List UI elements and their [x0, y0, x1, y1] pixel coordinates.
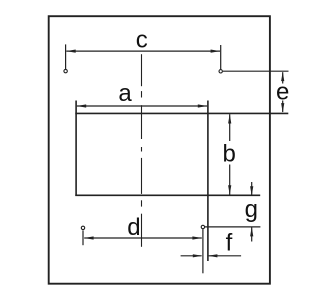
centerline — [141, 54, 143, 247]
arrowhead a right — [198, 104, 208, 107]
arrowhead b up — [228, 114, 231, 124]
arrowhead a left — [77, 104, 87, 107]
arrowhead f right-pointing (left of pair) — [193, 254, 203, 257]
svg-text:c: c — [136, 27, 148, 54]
mounting hole bottom-left — [81, 226, 84, 229]
arrowhead e down — [281, 103, 284, 113]
arrowhead b down — [228, 185, 231, 195]
arrowhead f left-pointing (right of pair) — [208, 254, 218, 257]
dimension c line — [66, 50, 220, 52]
cutout left edge — [75, 101, 77, 196]
arrowhead g down (above) — [250, 186, 253, 196]
extension line d left (below bottom-left hole) — [82, 230, 84, 245]
cutout bottom edge — [75, 194, 260, 196]
mounting hole top-right — [219, 70, 222, 73]
svg-text:e: e — [276, 78, 289, 105]
dimension f line — [181, 255, 202, 257]
panel outline — [49, 16, 270, 284]
extension line c left — [65, 44, 67, 69]
dimension a line — [77, 105, 207, 107]
arrowhead e up — [281, 72, 284, 82]
dimension d line — [84, 237, 202, 239]
svg-text:a: a — [118, 80, 132, 107]
mounting hole top-left — [64, 69, 67, 72]
dimension b line — [229, 114, 231, 141]
svg-text:g: g — [245, 196, 258, 223]
cutout right edge — [207, 101, 209, 262]
arrowhead d left — [84, 236, 94, 239]
extension line g bottom (from bottom-right hole) — [205, 226, 261, 228]
svg-text:f: f — [226, 230, 233, 257]
svg-text:b: b — [223, 140, 236, 167]
extension line e top (from top-right hole) — [223, 70, 289, 72]
arrowhead c left — [66, 50, 76, 53]
dimension e line — [282, 72, 284, 83]
arrowhead d right — [192, 236, 202, 239]
extension line c right — [220, 45, 222, 69]
dimension g line — [251, 182, 253, 196]
svg-text:d: d — [127, 214, 140, 241]
mounting hole bottom-right — [201, 225, 204, 228]
arrowhead c right — [211, 50, 221, 53]
extension line f left (below bottom-right hole) — [202, 229, 204, 273]
arrowhead g up (below) — [250, 227, 253, 237]
cutout top edge — [75, 112, 288, 114]
